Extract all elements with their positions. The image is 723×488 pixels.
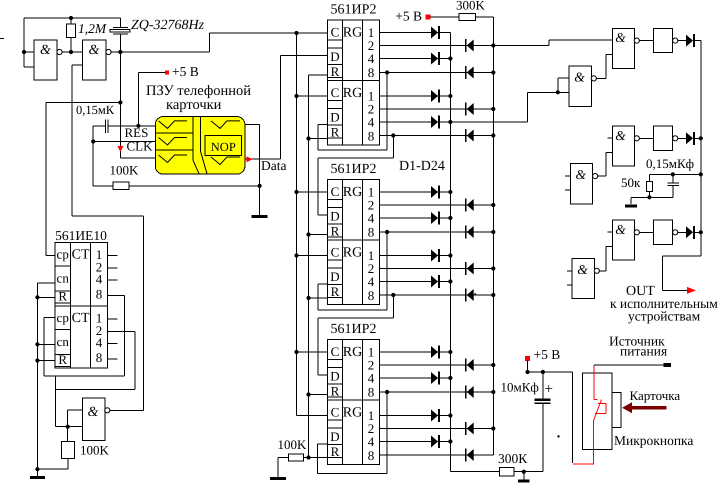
svg-text:&: & xyxy=(88,405,99,420)
svg-text:cn: cn xyxy=(57,334,70,349)
svg-text:8: 8 xyxy=(368,448,375,463)
svg-text:&: & xyxy=(574,69,585,84)
svg-text:C: C xyxy=(331,85,340,100)
svg-text:+: + xyxy=(545,382,553,398)
svg-text:+5 В: +5 В xyxy=(395,9,422,24)
svg-text:561ИЕ10: 561ИЕ10 xyxy=(55,228,107,243)
svg-text:4: 4 xyxy=(368,211,375,226)
svg-text:0,15мК: 0,15мК xyxy=(76,103,115,117)
svg-text:&: & xyxy=(577,262,588,277)
svg-text:CT: CT xyxy=(72,248,90,263)
svg-text:4: 4 xyxy=(96,335,103,350)
svg-text:C: C xyxy=(331,344,340,359)
svg-text:D: D xyxy=(330,369,339,384)
svg-text:D: D xyxy=(330,49,339,64)
svg-text:R: R xyxy=(331,384,340,399)
svg-text:Карточка: Карточка xyxy=(630,388,681,403)
svg-text:1,2M: 1,2M xyxy=(78,21,107,36)
svg-text:50к: 50к xyxy=(621,175,641,190)
svg-text:R: R xyxy=(331,64,340,79)
svg-text:100K: 100K xyxy=(110,163,140,178)
svg-text:D: D xyxy=(330,110,339,125)
svg-text:10мКф: 10мКф xyxy=(501,380,539,395)
svg-text:C: C xyxy=(331,25,340,40)
svg-text:RG: RG xyxy=(343,86,362,101)
svg-text:&: & xyxy=(576,167,587,182)
svg-text:0,15мКф: 0,15мКф xyxy=(646,156,694,171)
svg-text:cp: cp xyxy=(57,247,69,262)
svg-text:NOP: NOP xyxy=(211,140,236,154)
svg-text:C: C xyxy=(331,405,340,420)
svg-text:устройствам: устройствам xyxy=(628,309,701,324)
svg-text:R: R xyxy=(331,444,340,459)
svg-text:&: & xyxy=(89,43,100,58)
svg-text:4: 4 xyxy=(368,434,375,449)
svg-text:300K: 300K xyxy=(456,0,486,13)
svg-text:карточки: карточки xyxy=(166,97,222,113)
svg-text:R: R xyxy=(58,289,67,304)
svg-text:4: 4 xyxy=(368,51,375,66)
svg-text:R: R xyxy=(331,224,340,239)
svg-text:100K: 100K xyxy=(278,437,308,452)
svg-text:питания: питания xyxy=(620,344,667,359)
svg-text:&: & xyxy=(40,43,51,58)
svg-text:R: R xyxy=(58,352,67,367)
svg-text:8: 8 xyxy=(368,129,375,144)
svg-text:CT: CT xyxy=(72,311,90,326)
svg-text:D: D xyxy=(330,209,339,224)
svg-text:&: & xyxy=(615,222,626,237)
svg-text:D: D xyxy=(330,429,339,444)
svg-text:cp: cp xyxy=(57,310,69,325)
svg-text:&: & xyxy=(615,128,626,143)
svg-text:100K: 100K xyxy=(80,443,110,458)
svg-text:RG: RG xyxy=(343,185,362,200)
svg-text:+5 В: +5 В xyxy=(534,347,561,362)
svg-text:8: 8 xyxy=(368,225,375,240)
svg-text:+5 В: +5 В xyxy=(172,64,199,79)
svg-text:4: 4 xyxy=(368,371,375,386)
svg-text:R: R xyxy=(331,284,340,299)
svg-text:8: 8 xyxy=(368,288,375,303)
svg-text:561ИР2: 561ИР2 xyxy=(331,322,377,337)
svg-text:RG: RG xyxy=(343,246,362,261)
svg-text:300К: 300К xyxy=(498,451,528,466)
svg-text:R: R xyxy=(331,125,340,140)
svg-text:D1-D24: D1-D24 xyxy=(399,159,445,174)
svg-text:D: D xyxy=(330,269,339,284)
svg-text:Data: Data xyxy=(261,158,286,173)
svg-text:C: C xyxy=(331,245,340,260)
svg-text:8: 8 xyxy=(368,65,375,80)
svg-text:RG: RG xyxy=(343,406,362,421)
svg-text:RG: RG xyxy=(343,345,362,360)
svg-text:8: 8 xyxy=(96,350,103,365)
svg-text:4: 4 xyxy=(368,274,375,289)
svg-text:4: 4 xyxy=(368,115,375,130)
svg-text:cn: cn xyxy=(57,271,70,286)
svg-text:4: 4 xyxy=(96,272,103,287)
svg-text:Микрокнопка: Микрокнопка xyxy=(614,433,693,448)
svg-text:561ИР2: 561ИР2 xyxy=(331,162,377,177)
svg-text:ZQ-32768Hz: ZQ-32768Hz xyxy=(131,18,205,33)
svg-text:CLK: CLK xyxy=(127,139,154,154)
svg-text:C: C xyxy=(331,184,340,199)
svg-text:&: & xyxy=(615,30,626,45)
svg-text:561ИР2: 561ИР2 xyxy=(331,3,377,18)
svg-text:8: 8 xyxy=(96,286,103,301)
svg-text:RG: RG xyxy=(343,26,362,41)
svg-text:8: 8 xyxy=(368,385,375,400)
